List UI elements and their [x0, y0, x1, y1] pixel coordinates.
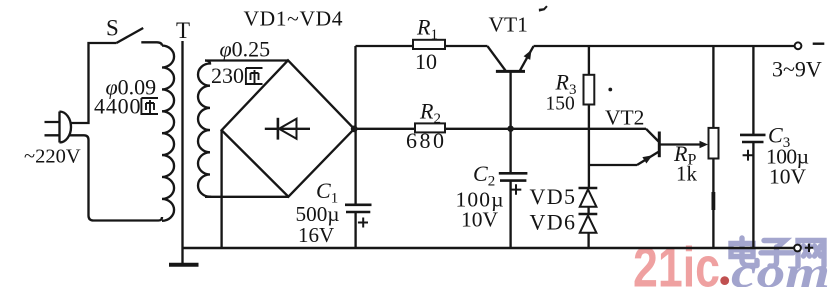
svg-text:3~9V: 3~9V [772, 57, 822, 82]
svg-text:1k: 1k [676, 162, 698, 186]
svg-text:150: 150 [546, 94, 575, 115]
svg-text:~220V: ~220V [24, 146, 81, 168]
svg-text:230: 230 [211, 63, 244, 88]
svg-text:com: com [731, 248, 830, 287]
svg-text:680: 680 [406, 128, 444, 153]
svg-text:φ0.25: φ0.25 [220, 37, 271, 62]
svg-text:T: T [176, 18, 190, 43]
svg-text:C2: C2 [473, 161, 495, 190]
svg-text:R2: R2 [419, 99, 441, 128]
svg-text:VD5: VD5 [530, 184, 576, 209]
svg-text:21ic: 21ic [633, 236, 720, 287]
svg-text:R1: R1 [416, 15, 438, 44]
svg-text:VT2: VT2 [605, 106, 644, 130]
svg-text:VT1: VT1 [489, 13, 528, 37]
svg-text:10: 10 [415, 49, 437, 74]
svg-text:10V: 10V [769, 165, 807, 189]
svg-text:16V: 16V [298, 223, 334, 247]
svg-text:4400: 4400 [94, 94, 141, 119]
svg-text:S: S [106, 16, 119, 41]
svg-text:10V: 10V [461, 208, 499, 232]
svg-text:VD1~VD4: VD1~VD4 [244, 6, 343, 30]
svg-text:VD6: VD6 [530, 210, 576, 235]
